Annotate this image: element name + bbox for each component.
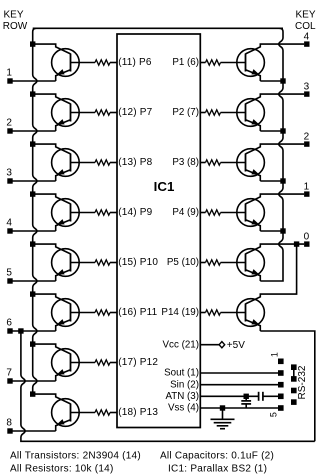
note capacitors <box>160 451 274 462</box>
node label column 0 <box>304 232 310 243</box>
svg-text:All Resistors: 10k (14): All Resistors: 10k (14) <box>10 463 114 474</box>
node label row 8 <box>6 417 12 428</box>
wire Vss to ground <box>222 408 224 419</box>
wire Sin to RS-232 pin 3 <box>200 384 278 386</box>
transistor Q5 (2N3904) <box>52 249 80 281</box>
IC U1 box (Parallax BS2) <box>117 34 200 428</box>
wire Q11 emitter to chain <box>260 180 283 182</box>
svg-text:P5 (10): P5 (10) <box>167 257 199 268</box>
wire Q4 collector to row bus <box>33 194 71 204</box>
svg-text:(13) P8: (13) P8 <box>118 157 152 168</box>
wire key row 7 <box>12 380 55 382</box>
pad key row 8 <box>7 428 12 433</box>
pad RS-232 pin 2 <box>278 370 284 376</box>
resistor R4 10k <box>95 210 117 215</box>
pad key row 3 <box>7 178 12 183</box>
svg-text:1: 1 <box>6 67 12 78</box>
pin label RS-232 5 <box>269 412 279 417</box>
node label row 2 <box>6 117 12 128</box>
wire Q9 emitter to chain <box>260 80 283 82</box>
svg-text:IC1: IC1 <box>154 179 175 194</box>
resistor R6 10k <box>95 310 117 315</box>
svg-text:ROW: ROW <box>3 21 28 32</box>
wire key row 3 <box>12 180 55 182</box>
svg-text:7: 7 <box>6 367 12 378</box>
pin label (18) P13 <box>118 407 158 418</box>
note IC1 <box>168 463 267 474</box>
net label KEY COL <box>295 10 316 32</box>
wire key row 4 <box>12 230 55 232</box>
node label row 4 <box>6 217 12 228</box>
svg-text:RS-232: RS-232 <box>297 365 308 399</box>
pin label P1 (6) <box>172 57 199 68</box>
wire Q4 base <box>71 212 96 214</box>
node label row 3 <box>6 167 12 178</box>
wire Q10 base <box>221 112 246 114</box>
svg-text:1: 1 <box>270 352 280 357</box>
wire Q13 base <box>221 262 246 264</box>
wire Q8 base <box>71 412 96 414</box>
wire row collector bus <box>33 28 37 394</box>
svg-text:P4 (9): P4 (9) <box>172 207 199 218</box>
svg-text:(14) P9: (14) P9 <box>118 207 152 218</box>
node label column 4 <box>304 32 310 43</box>
wire Q9 collector to column pad <box>246 44 305 54</box>
pad key row 4 <box>7 228 12 233</box>
pad RS-232 pin 1 <box>278 359 284 365</box>
transistor Q1 (2N3904) <box>52 49 80 81</box>
junction Q11 emitter / chain <box>280 178 285 183</box>
junction Vss / ground <box>220 405 225 410</box>
pad RS-232 pin 5 <box>278 405 284 411</box>
node label row 6 <box>6 317 12 328</box>
svg-text:(11) P6: (11) P6 <box>118 57 152 68</box>
svg-text:P1 (6): P1 (6) <box>172 57 199 68</box>
wire Q2 collector to row bus <box>33 94 71 104</box>
wire Q1 base <box>71 62 96 64</box>
svg-text:Sout (1): Sout (1) <box>164 368 199 379</box>
pin label (16) P11 <box>118 307 157 318</box>
svg-text:4: 4 <box>304 32 310 43</box>
wire Q14 emitter to return bus <box>260 331 315 441</box>
pin label (14) P9 <box>118 207 152 218</box>
wire Q9 base <box>221 62 246 64</box>
wire Q11 base <box>221 162 246 164</box>
svg-text:Vss (4): Vss (4) <box>168 403 199 414</box>
wire Q10 emitter to chain <box>260 130 283 132</box>
wire Q2 base <box>71 112 96 114</box>
pad key column 2 <box>304 141 309 146</box>
wire Q12 collector to column pad <box>246 194 305 204</box>
transistor Q9 (2N3904) <box>237 49 265 81</box>
node label row 1 <box>6 67 12 78</box>
junction Q9 emitter / chain <box>280 78 285 83</box>
wire Q1 collector to row bus <box>33 44 71 54</box>
pin label Sout (1) <box>164 368 199 379</box>
pad key row 2 <box>7 128 12 133</box>
wire ATN to capacitor C2 <box>245 396 247 400</box>
resistor R13 10k <box>200 260 220 265</box>
resistor R12 10k <box>200 210 220 215</box>
transistor Q8 (2N3904) <box>52 399 80 431</box>
transistor Q10 (2N3904) <box>237 99 265 131</box>
resistor R3 10k <box>95 160 117 165</box>
wire Q6 collector to row bus <box>33 294 71 304</box>
pad RS-232 pin 6 <box>291 364 297 370</box>
svg-text:6: 6 <box>6 317 12 328</box>
junction Q10 emitter / chain <box>280 128 285 133</box>
pad key row 1 <box>7 78 12 83</box>
svg-text:5: 5 <box>269 412 279 417</box>
resistor R14 10k <box>200 310 220 315</box>
wire capacitor C2 to Vss <box>245 404 247 408</box>
wire capacitor C1 to RS-232 pin 4 <box>263 395 278 397</box>
wire top rail (row bus to column chain) <box>33 27 283 29</box>
junction Q7 collector / bus <box>30 341 35 346</box>
transistor Q13 (2N3904) <box>237 249 265 281</box>
wire Q3 base <box>71 162 96 164</box>
svg-text:3: 3 <box>6 167 12 178</box>
wire Q10 collector to column pad <box>246 94 305 104</box>
pad key row 5 <box>7 278 12 283</box>
pad RS-232 pin 3 <box>278 382 284 388</box>
junction Q8 collector / bus <box>30 391 35 396</box>
junction row-6 / return bus <box>18 328 23 333</box>
node label column 1 <box>304 182 310 193</box>
svg-text:KEY: KEY <box>296 10 316 21</box>
pad key column 0 <box>304 241 309 246</box>
pad RS-232 pin 9 <box>291 399 297 405</box>
junction Q1 collector / bus <box>30 41 35 46</box>
svg-text:KEY: KEY <box>4 10 24 21</box>
svg-text:All Transistors: 2N3904 (14): All Transistors: 2N3904 (14) <box>10 451 141 462</box>
wire Q12 emitter to chain <box>260 230 283 232</box>
svg-text:P3 (8): P3 (8) <box>172 157 199 168</box>
wire key row 8 <box>12 430 55 432</box>
svg-text:All Capacitors: 0.1uF (2): All Capacitors: 0.1uF (2) <box>160 451 274 462</box>
pin label (17) P12 <box>118 357 158 368</box>
capacitor C2 0.1uF <box>241 401 251 404</box>
resistor R2 10k <box>95 110 117 115</box>
power symbol +5V <box>219 340 245 351</box>
svg-text:(15) P10: (15) P10 <box>118 257 158 268</box>
junction Q4 collector / bus <box>30 191 35 196</box>
svg-text:8: 8 <box>6 417 12 428</box>
pin label P5 (10) <box>167 257 199 268</box>
pin label P3 (8) <box>172 157 199 168</box>
wire Q6 base <box>71 312 96 314</box>
pin label (12) P7 <box>118 107 152 118</box>
svg-text:(18) P13: (18) P13 <box>118 407 158 418</box>
junction Q12 emitter / chain <box>280 228 285 233</box>
pad RS-232 pin 4 <box>278 394 284 400</box>
transistor Q4 (2N3904) <box>52 199 80 231</box>
pin label P2 (7) <box>172 107 199 118</box>
pin label Sin (2) <box>170 379 199 390</box>
wire Q7 base <box>71 362 96 364</box>
pad key row 6 <box>7 328 12 333</box>
junction Q3 collector / bus <box>30 141 35 146</box>
transistor Q6 (2N3904) <box>52 299 80 331</box>
ground <box>211 419 235 428</box>
transistor Q7 (2N3904) <box>52 349 80 381</box>
resistor R8 10k <box>95 410 117 415</box>
svg-text:+5V: +5V <box>227 340 245 351</box>
svg-text:IC1: Parallax BS2 (1): IC1: Parallax BS2 (1) <box>168 463 267 474</box>
pad key column 3 <box>304 91 309 96</box>
wire Q8 collector to row bus <box>33 394 71 404</box>
pad key row 7 <box>7 378 12 383</box>
connector J1 RS-232 label <box>297 365 308 399</box>
pad RS-232 pin 7 <box>291 376 297 382</box>
transistor Q2 (2N3904) <box>52 99 80 131</box>
node label row 5 <box>6 267 12 278</box>
pin label Vss (4) <box>168 403 199 414</box>
svg-text:(12) P7: (12) P7 <box>118 107 152 118</box>
wire row-6 to Q14 emitter return <box>21 331 315 441</box>
svg-text:3: 3 <box>304 82 310 93</box>
wire key row 6 <box>12 330 55 332</box>
pad key column 4 <box>304 41 309 46</box>
pad RS-232 pin 8 <box>291 388 297 394</box>
node label column 2 <box>304 132 310 143</box>
IC1 name label <box>154 179 175 194</box>
wire key row 1 <box>12 80 55 82</box>
pin label RS-232 1 <box>270 352 280 357</box>
pin label ATN (3) <box>165 391 199 402</box>
svg-text:5: 5 <box>6 267 12 278</box>
net label KEY ROW <box>3 10 28 32</box>
junction Q14 collector / column 0 <box>294 241 299 246</box>
note resistors <box>10 463 114 474</box>
resistor R10 10k <box>200 110 220 115</box>
transistor Q11 (2N3904) <box>237 149 265 181</box>
resistor R7 10k <box>95 360 117 365</box>
junction ATN / C2 <box>244 394 249 399</box>
transistor Q14 (2N3904) <box>237 299 265 331</box>
pad key column 1 <box>304 191 309 196</box>
pin label P4 (9) <box>172 207 199 218</box>
wire RS-232 pins 6-7 jumper <box>293 367 295 379</box>
svg-text:4: 4 <box>6 217 12 228</box>
svg-text:2: 2 <box>304 132 310 143</box>
svg-text:(17) P12: (17) P12 <box>118 357 158 368</box>
wire Q5 base <box>71 262 96 264</box>
pin label (15) P10 <box>118 257 158 268</box>
svg-text:(16) P11: (16) P11 <box>118 307 157 318</box>
wire Q11 collector to column pad <box>246 144 305 154</box>
svg-text:1: 1 <box>304 182 310 193</box>
pin label Vcc (21) <box>163 339 199 350</box>
resistor R1 10k <box>95 60 117 65</box>
wire Sout to RS-232 pin 2 <box>200 372 278 374</box>
capacitor C1 0.1uF <box>259 392 263 401</box>
wire Q5 collector to row bus <box>33 244 71 254</box>
transistor Q12 (2N3904) <box>237 199 265 231</box>
resistor R11 10k <box>200 160 220 165</box>
wire ATN to capacitor C1 <box>200 395 258 397</box>
pin label (11) P6 <box>118 57 152 68</box>
wire Vcc to +5V <box>200 344 219 346</box>
junction Q5 collector / bus <box>30 241 35 246</box>
pin label P14 (19) <box>161 307 199 318</box>
wire Q13 collector to column pad <box>246 244 305 254</box>
svg-text:ATN (3): ATN (3) <box>165 391 199 402</box>
node label column 3 <box>304 82 310 93</box>
wire key row 2 <box>12 130 55 132</box>
svg-text:P14 (19): P14 (19) <box>161 307 199 318</box>
node label row 7 <box>6 367 12 378</box>
resistor R9 10k <box>200 60 220 65</box>
svg-text:P2 (7): P2 (7) <box>172 107 199 118</box>
svg-text:COL: COL <box>295 21 316 32</box>
wire column chain <box>260 28 283 281</box>
wire Q7 collector to row bus <box>33 344 71 354</box>
svg-text:0: 0 <box>304 232 310 243</box>
wire Q3 collector to row bus <box>33 144 71 154</box>
svg-text:Sin (2): Sin (2) <box>170 379 199 390</box>
svg-text:2: 2 <box>6 117 12 128</box>
pin label (13) P8 <box>118 157 152 168</box>
wire key row 5 <box>12 280 55 282</box>
wire Q14 base <box>221 312 246 314</box>
wire Q12 base <box>221 212 246 214</box>
wire Vss to RS-232 pin 5 <box>200 407 278 409</box>
wire Q14 collector to column 0 <box>246 244 297 304</box>
svg-text:Vcc (21): Vcc (21) <box>163 339 199 350</box>
junction Q2 collector / bus <box>30 91 35 96</box>
note transistors <box>10 451 141 462</box>
resistor R5 10k <box>95 260 117 265</box>
junction Q6 collector / bus <box>30 291 35 296</box>
transistor Q3 (2N3904) <box>52 149 80 181</box>
